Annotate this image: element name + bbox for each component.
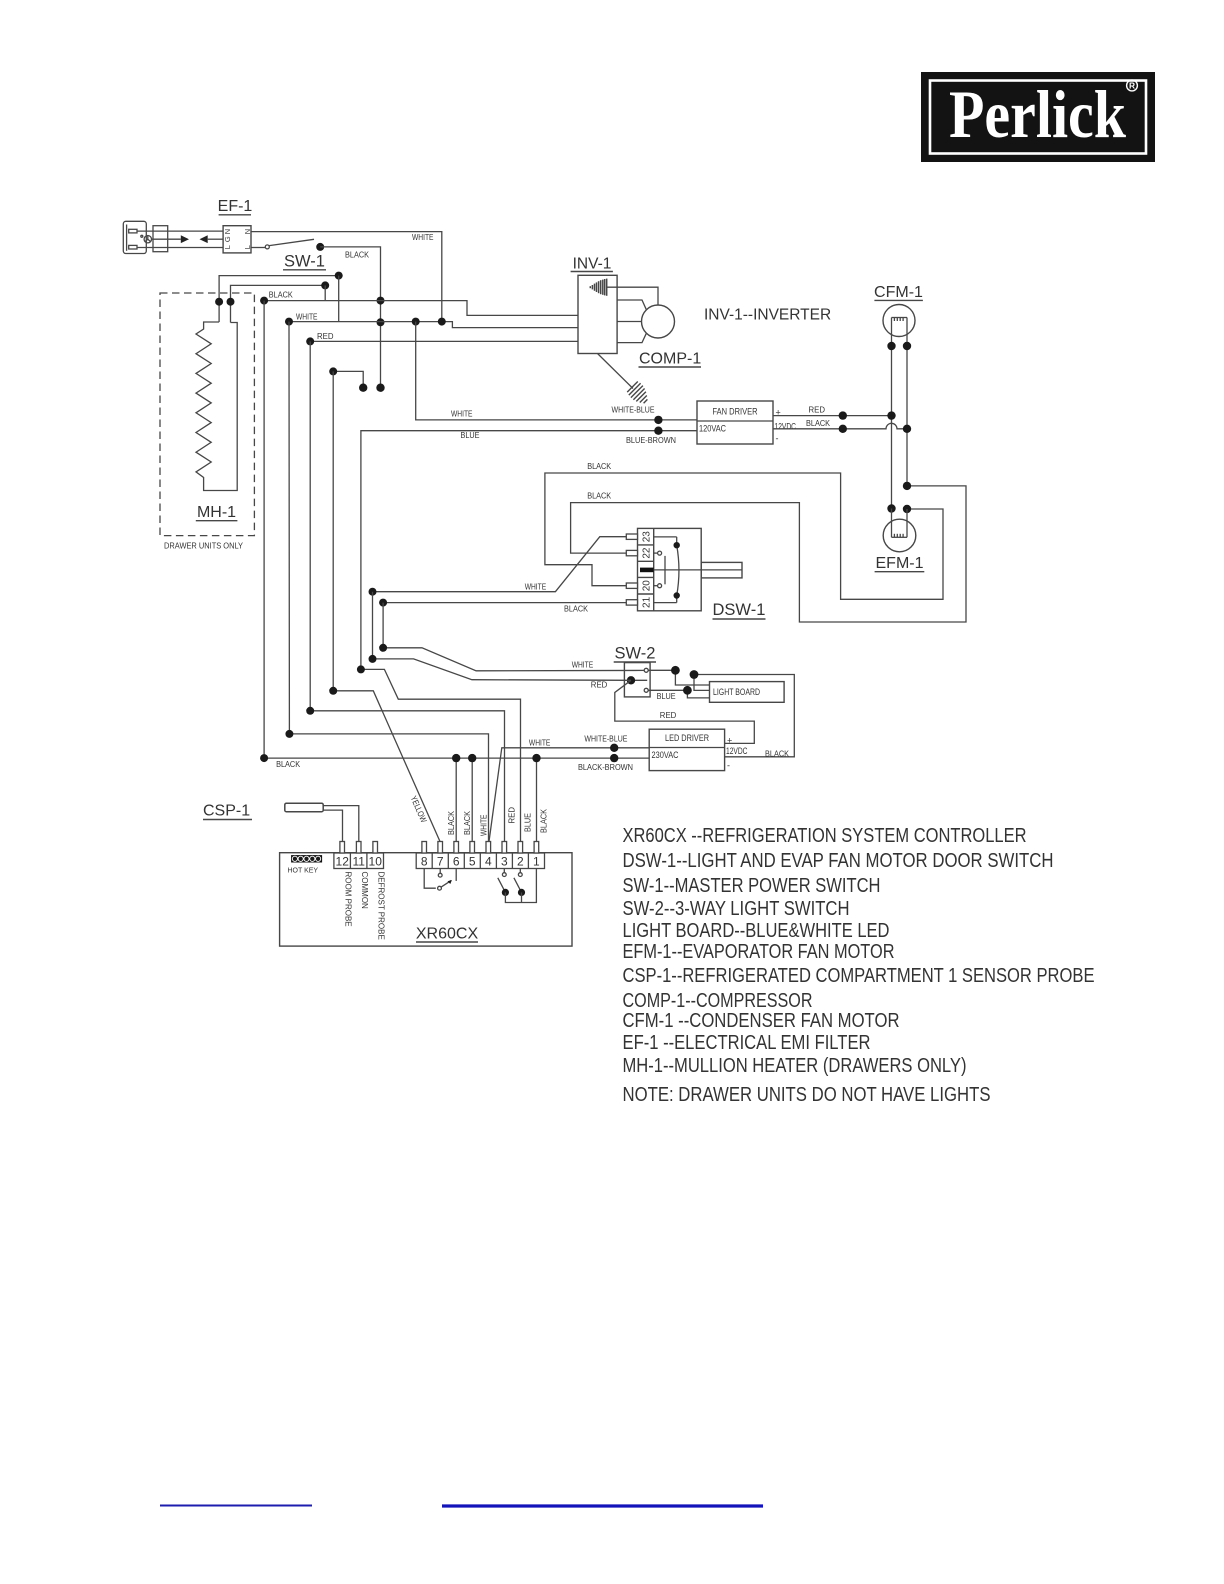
svg-text:DRAWER UNITS ONLY: DRAWER UNITS ONLY: [164, 541, 243, 551]
svg-text:11: 11: [352, 854, 365, 868]
light board box: [710, 682, 785, 703]
node connector end A: [376, 384, 384, 392]
label WHITE: [412, 232, 434, 242]
svg-text:22: 22: [642, 547, 653, 559]
svg-text:FAN DRIVER: FAN DRIVER: [713, 407, 758, 417]
node EFM terminal right: [903, 505, 911, 513]
node EFM terminal left: [887, 504, 895, 512]
label BLACK-BROWN: [578, 762, 633, 772]
DSW-1 terminal pins: [626, 534, 637, 605]
label BLACK: [269, 289, 293, 299]
inverter hatch symbol: [590, 279, 606, 296]
footer link underline right: [442, 1504, 763, 1507]
svg-text:BLACK: BLACK: [587, 491, 611, 501]
wire INV out top to COMP: [607, 287, 658, 305]
svg-text:LED DRIVER: LED DRIVER: [665, 733, 709, 743]
label WHITE: [529, 737, 551, 747]
svg-text:EFM-1--EVAPORATOR FAN MOTOR: EFM-1--EVAPORATOR FAN MOTOR: [623, 941, 895, 963]
svg-text:DEFROST PROBE: DEFROST PROBE: [377, 872, 386, 940]
svg-text:NOTE: DRAWER UNITS DO NOT HAVE: NOTE: DRAWER UNITS DO NOT HAVE LIGHTS: [623, 1084, 991, 1106]
svg-text:12VDC: 12VDC: [726, 746, 748, 756]
svg-text:G: G: [223, 236, 232, 242]
junction SW-1/white bus: [377, 318, 385, 326]
wire INV out 4: [617, 333, 646, 342]
label SW-1: [284, 253, 325, 271]
svg-text:SW-2--3-WAY LIGHT SWITCH: SW-2--3-WAY LIGHT SWITCH: [623, 898, 850, 920]
svg-text:SW-2: SW-2: [615, 645, 656, 663]
svg-text:BLACK: BLACK: [564, 604, 588, 614]
compressor hatch arrowhead: [627, 382, 647, 404]
svg-text:RED: RED: [660, 710, 677, 720]
svg-text:WHITE-BLUE: WHITE-BLUE: [612, 405, 655, 415]
label BLACK: [276, 759, 300, 769]
wire MH-1 feed 2: [231, 285, 326, 322]
svg-text:7: 7: [437, 854, 444, 868]
svg-text:8: 8: [421, 854, 428, 868]
svg-text:MH-1: MH-1: [197, 504, 236, 521]
sensor probe CSP-1: [285, 803, 323, 812]
XR relay 8-7-6: [424, 869, 456, 891]
wire BLACK taps to XR pins 6,5,1: [455, 758, 457, 841]
junction black-bus tap: [321, 281, 329, 289]
svg-text:BLACK: BLACK: [269, 289, 293, 299]
node splice WHITE-BLUE: [610, 744, 618, 752]
wire WHITE to XR pin4: [289, 322, 489, 842]
svg-text:BLACK: BLACK: [276, 759, 300, 769]
svg-text:6: 6: [453, 854, 460, 868]
wire SW-2 bottom BLUE to light board: [648, 690, 709, 698]
label COMP-1: [639, 351, 701, 368]
junction white/red riser top: [369, 588, 377, 596]
svg-text:RED: RED: [809, 405, 826, 415]
wire black loop outer (DSW22 to CFM junction): [571, 486, 966, 622]
junction elbow: [285, 730, 293, 738]
svg-text:BLACK: BLACK: [587, 461, 611, 471]
junction elbow: [306, 707, 314, 715]
svg-text:WHITE: WHITE: [296, 312, 318, 322]
junction black bus left end: [260, 297, 268, 305]
Perlick logo: [921, 72, 1155, 162]
junction BLACK/CFM right: [903, 425, 911, 433]
heater MH-1 element: [196, 322, 237, 491]
svg-text:RED: RED: [507, 807, 517, 824]
svg-text:-: -: [727, 761, 730, 771]
wire WHITE bus: [289, 322, 578, 328]
label RED: [660, 710, 677, 720]
svg-text:CFM-1 --CONDENSER FAN MOTOR: CFM-1 --CONDENSER FAN MOTOR: [623, 1010, 900, 1032]
node MH-1 terminal dots: [215, 298, 223, 306]
svg-text:LIGHT BOARD--BLUE&WHITE LED: LIGHT BOARD--BLUE&WHITE LED: [623, 920, 890, 942]
svg-text:BLUE: BLUE: [523, 813, 533, 832]
junction RED/CFM left: [887, 411, 895, 419]
junction elbow: [369, 655, 377, 663]
label EF-1: [218, 198, 253, 215]
label BLACK: [587, 461, 611, 471]
svg-text:N: N: [243, 229, 252, 234]
svg-text:BLACK: BLACK: [462, 811, 472, 835]
label INV-1--INVERTER: [704, 307, 831, 324]
svg-text:HOT KEY: HOT KEY: [288, 868, 319, 875]
node junction C: [690, 670, 699, 679]
filter pin labels N G L: [223, 229, 252, 249]
junction elbow: [329, 687, 337, 695]
legend text: [623, 825, 1095, 1106]
label EFM-1: [876, 555, 924, 572]
wire INV out 2: [617, 300, 646, 310]
label RED: [591, 680, 608, 690]
svg-text:-: -: [776, 434, 779, 444]
junction yellow elbow: [329, 367, 337, 375]
junction black riser top: [379, 599, 387, 607]
wire BLUE to fan driver: [361, 431, 697, 670]
svg-text:COMP-1: COMP-1: [639, 351, 701, 368]
svg-text:LIGHT BOARD: LIGHT BOARD: [713, 687, 760, 697]
wire yellow stub branch: [333, 371, 363, 387]
node junction B: [683, 686, 692, 695]
XR terminal block 8-1: [416, 853, 544, 869]
svg-text:WHITE: WHITE: [478, 814, 488, 836]
svg-text:WHITE: WHITE: [412, 232, 434, 242]
svg-text:BLACK: BLACK: [806, 418, 830, 428]
node splice BLUE-BROWN: [654, 427, 662, 435]
inverter INV-1 box: [578, 275, 617, 353]
wire SW-1 out (BLACK) down to end dot: [320, 247, 380, 388]
label WHITE-BLUE: [584, 734, 627, 744]
LED driver box: [649, 729, 724, 770]
wire BLACK bus: [264, 301, 578, 316]
door switch DSW-1 body: [638, 528, 702, 610]
DSW-1 internal contacts: [654, 537, 680, 603]
label DSW-1: [713, 601, 766, 619]
controller XR60CX box: [280, 853, 572, 946]
node splice BLACK-BROWN: [610, 754, 618, 762]
wire RED to XR pin3: [310, 341, 504, 841]
svg-text:MH-1--MULLION HEATER (DRAWERS: MH-1--MULLION HEATER (DRAWERS ONLY): [623, 1055, 967, 1077]
junction elbow: [260, 754, 268, 762]
svg-text:12VDC: 12VDC: [775, 422, 797, 432]
svg-text:ROOM PROBE: ROOM PROBE: [344, 872, 353, 927]
node junction A: [671, 666, 680, 675]
junction SW-1/black bus: [377, 297, 385, 305]
wire CFM right lead upper: [906, 318, 908, 486]
junction red bus left end: [306, 337, 314, 345]
plug P1 (power cord plug): [123, 221, 167, 253]
DSW-1 common bar: [640, 568, 654, 573]
label WHITE-BLUE: [612, 405, 655, 415]
label INV-1: [573, 256, 612, 273]
svg-text:RED: RED: [317, 331, 334, 341]
label BLUE-BROWN: [626, 435, 676, 445]
node connector end B: [359, 384, 367, 392]
node splice BLACK: [839, 425, 847, 433]
svg-text:XR60CX --REFRIGERATION SYSTEM: XR60CX --REFRIGERATION SYSTEM CONTROLLER: [623, 825, 1027, 847]
svg-text:R: R: [1129, 81, 1135, 91]
XR terminal block 12-10: [334, 853, 384, 869]
wire plug-N to filter: [137, 247, 223, 249]
footer link underline left: [160, 1505, 312, 1507]
svg-text:DSW-1: DSW-1: [713, 601, 766, 619]
svg-text:EF-1: EF-1: [218, 198, 253, 215]
svg-text:SW-1: SW-1: [284, 253, 325, 271]
compressor COMP-1 motor circle: [642, 305, 675, 338]
svg-text:EFM-1: EFM-1: [876, 555, 924, 572]
wire YELLOW to XR pin7: [333, 371, 440, 841]
svg-text:230VAC: 230VAC: [652, 750, 679, 760]
node CFM terminal dots: [887, 342, 895, 350]
label BLACK (LED minus): [765, 748, 789, 758]
fan driver box: [697, 401, 773, 444]
label WHITE: [296, 312, 318, 322]
svg-text:+: +: [727, 736, 732, 746]
svg-text:1: 1: [533, 854, 540, 868]
wire plug-G middle with mating arrows: [152, 235, 224, 243]
svg-text:COMMON: COMMON: [360, 872, 369, 910]
svg-text:5: 5: [469, 854, 476, 868]
svg-text:4: 4: [485, 854, 492, 868]
label XR60CX: [416, 926, 479, 943]
svg-text:WHITE: WHITE: [529, 737, 551, 747]
XR probe terminal labels: [344, 872, 386, 940]
svg-text:BLUE-BROWN: BLUE-BROWN: [626, 435, 676, 445]
svg-text:RED: RED: [591, 680, 608, 690]
label CFM-1: [874, 284, 923, 301]
wire MH-1 feed 1: [219, 276, 339, 322]
svg-text:21: 21: [642, 596, 653, 608]
dashed enclosure DRAWER UNITS ONLY: [160, 293, 254, 536]
junction elbow: [379, 644, 387, 652]
XR relay common to terminal 1: [505, 869, 536, 903]
label WHITE: [572, 660, 594, 670]
wire light board common to black return: [694, 675, 794, 757]
label WHITE: [525, 582, 547, 592]
svg-text:L: L: [223, 245, 232, 249]
svg-text:23: 23: [642, 531, 653, 543]
svg-text:20: 20: [642, 580, 653, 592]
wire WHITE to DSW pin23: [373, 537, 627, 592]
wire BLACK-BROWN bus into LED driver: [264, 301, 649, 758]
wire BLUE to XR pin2: [361, 669, 521, 841]
label HOT KEY: [288, 868, 319, 875]
switch SW-2 box: [624, 663, 650, 697]
label RED: [317, 331, 334, 341]
label MH-1: [197, 504, 236, 521]
wire probe to pin 12: [323, 810, 342, 841]
fan motor EFM-1 circle: [883, 519, 916, 552]
svg-text:INV-1--INVERTER: INV-1--INVERTER: [704, 307, 831, 324]
label BLACK: [345, 250, 369, 260]
wire SW-2 common RED to LED driver +: [615, 680, 755, 743]
wire RED riser to SW-2 common: [373, 592, 632, 681]
wire CFM left lead: [891, 318, 893, 509]
node SW-2 common dot: [627, 676, 635, 684]
svg-text:CSP-1: CSP-1: [203, 803, 250, 820]
svg-text:L: L: [243, 245, 252, 249]
XR relay 2: [514, 869, 525, 897]
EMI filter EF-1 box: [223, 226, 251, 253]
DSW-1 plunger: [701, 562, 742, 578]
hot key connector: [291, 855, 322, 862]
wire WHITE to fan driver: [416, 322, 697, 420]
wire filter L out to SW-1: [251, 247, 265, 249]
wire BLACK to DSW pin21: [383, 602, 626, 604]
svg-text:EF-1 --ELECTRICAL EMI FILTER: EF-1 --ELECTRICAL EMI FILTER: [623, 1032, 871, 1054]
label CSP-1: [203, 803, 250, 820]
leader line to compressor hatch arrow: [598, 354, 634, 389]
svg-text:CFM-1: CFM-1: [874, 284, 923, 301]
svg-text:12: 12: [336, 854, 350, 868]
label RED: [809, 405, 826, 415]
label BLUE: [657, 691, 676, 701]
wire SW-2 top to light board: [648, 670, 709, 685]
svg-text:10: 10: [369, 854, 383, 868]
svg-text:BLUE: BLUE: [657, 691, 676, 701]
DSW-1 terminal numbers: [642, 531, 653, 608]
XR terminal pins: [340, 842, 539, 854]
wire RED bus: [310, 340, 578, 342]
svg-text:Perlick: Perlick: [949, 76, 1126, 152]
svg-text:INV-1: INV-1: [573, 256, 612, 273]
wire WHITE riser to SW-2 top: [383, 603, 644, 671]
svg-text:WHITE: WHITE: [572, 660, 594, 670]
svg-text:WHITE-BLUE: WHITE-BLUE: [584, 734, 627, 744]
node splice WHITE-BLUE: [654, 416, 662, 424]
svg-text:BLACK: BLACK: [765, 748, 789, 758]
svg-text:WHITE: WHITE: [525, 582, 547, 592]
wire filter N out (WHITE) to corner x441.8: [251, 232, 442, 322]
junction outer loop/CFM right lead: [903, 482, 911, 490]
CFM-1 coil: [892, 318, 908, 322]
svg-text:BLACK: BLACK: [446, 811, 456, 835]
svg-text:3: 3: [501, 854, 508, 868]
EFM-1 coil: [892, 509, 908, 538]
svg-text:WHITE: WHITE: [451, 409, 473, 419]
label SW-2: [615, 645, 656, 663]
wire fan driver - BLACK to CFM with hop: [773, 423, 907, 428]
svg-text:N: N: [223, 229, 232, 234]
junction white bus taps: [412, 318, 420, 326]
label BLACK: [587, 491, 611, 501]
wire fan driver + RED to CFM: [773, 415, 892, 417]
label BLUE: [461, 430, 480, 440]
junction elbow: [357, 665, 365, 673]
XR relay 3: [498, 869, 509, 897]
svg-text:2: 2: [517, 854, 524, 868]
wire plug-L to filter: [137, 230, 223, 232]
label WHITE: [451, 409, 473, 419]
label LIGHT BOARD: [713, 687, 760, 697]
svg-text:DSW-1--LIGHT AND EVAP FAN MOTO: DSW-1--LIGHT AND EVAP FAN MOTOR DOOR SWI…: [623, 850, 1054, 872]
switch SW-1: [265, 239, 324, 251]
fan motor CFM-1 circle: [883, 305, 915, 337]
wire WHITE-BLUE into LED driver from XR pin4: [489, 748, 649, 842]
svg-text:BLACK: BLACK: [345, 250, 369, 260]
svg-text:COMP-1--COMPRESSOR: COMP-1--COMPRESSOR: [623, 990, 813, 1012]
wire black loop inner (DSW20 to EFM right): [545, 473, 943, 599]
svg-text:120VAC: 120VAC: [699, 424, 726, 434]
SW-2 contacts: [631, 668, 648, 692]
svg-text:XR60CX: XR60CX: [416, 926, 479, 943]
wire color labels at XR terminals: [409, 794, 549, 836]
label BLACK: [564, 604, 588, 614]
svg-text:BLACK: BLACK: [539, 809, 549, 833]
label BLACK: [806, 418, 830, 428]
svg-text:CSP-1--REFRIGERATED COMPARTMEN: CSP-1--REFRIGERATED COMPARTMENT 1 SENSOR…: [623, 965, 1095, 987]
junction white bus left end: [285, 318, 293, 326]
node splice RED: [839, 411, 847, 419]
junction white-bus tap: [335, 272, 343, 280]
svg-text:BLUE: BLUE: [461, 430, 480, 440]
svg-text:BLACK-BROWN: BLACK-BROWN: [578, 762, 633, 772]
svg-text:SW-1--MASTER POWER SWITCH: SW-1--MASTER POWER SWITCH: [623, 875, 881, 897]
wire INV out 3: [617, 321, 641, 323]
wire probe to pin 11: [323, 806, 359, 842]
